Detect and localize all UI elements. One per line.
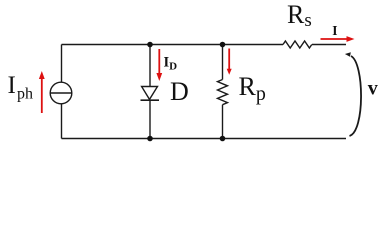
label I bbox=[332, 23, 337, 38]
label v bbox=[368, 77, 378, 99]
label D bbox=[170, 77, 189, 106]
svg-text:ID: ID bbox=[164, 55, 178, 73]
label I_ph bbox=[8, 72, 34, 103]
wire diode branch lower bbox=[149, 100, 151, 138]
svg-text:v: v bbox=[368, 77, 378, 99]
voltage bracket curve with arrowhead bbox=[345, 52, 361, 136]
label I_D bbox=[164, 55, 178, 73]
svg-text:Rs: Rs bbox=[287, 0, 312, 31]
wire top rail left segment bbox=[62, 44, 284, 46]
diode D symbol bbox=[141, 87, 160, 101]
current arrow through Rp (red, down) bbox=[227, 49, 232, 75]
wire left vertical branch upper bbox=[61, 45, 63, 83]
resistor R_p zigzag bbox=[218, 80, 228, 105]
wire top rail right segment to output terminal bbox=[312, 44, 346, 46]
label R_s bbox=[287, 0, 312, 31]
wire Rp branch upper bbox=[222, 45, 224, 80]
wire Rp branch lower bbox=[222, 105, 224, 139]
current arrow I_ph (red, up) bbox=[39, 71, 45, 113]
current source I_ph circle bbox=[50, 82, 72, 104]
svg-text:I: I bbox=[332, 23, 337, 38]
node junction dot top Rp bbox=[220, 42, 226, 48]
current arrow I_D (red, down) bbox=[156, 49, 162, 81]
wire left vertical branch lower bbox=[61, 104, 63, 139]
current arrow I output (red, right) bbox=[321, 36, 355, 42]
wire bottom rail bbox=[62, 138, 347, 140]
node junction dot top diode bbox=[147, 42, 153, 48]
node junction dot bottom Rp bbox=[220, 136, 226, 142]
svg-text:Rp: Rp bbox=[239, 72, 266, 105]
svg-text:D: D bbox=[170, 77, 189, 106]
svg-text:Iph: Iph bbox=[8, 72, 34, 103]
wire diode branch upper bbox=[149, 45, 151, 87]
resistor R_s zigzag bbox=[283, 41, 312, 48]
node junction dot bottom diode bbox=[147, 136, 153, 142]
label R_p bbox=[239, 72, 266, 105]
